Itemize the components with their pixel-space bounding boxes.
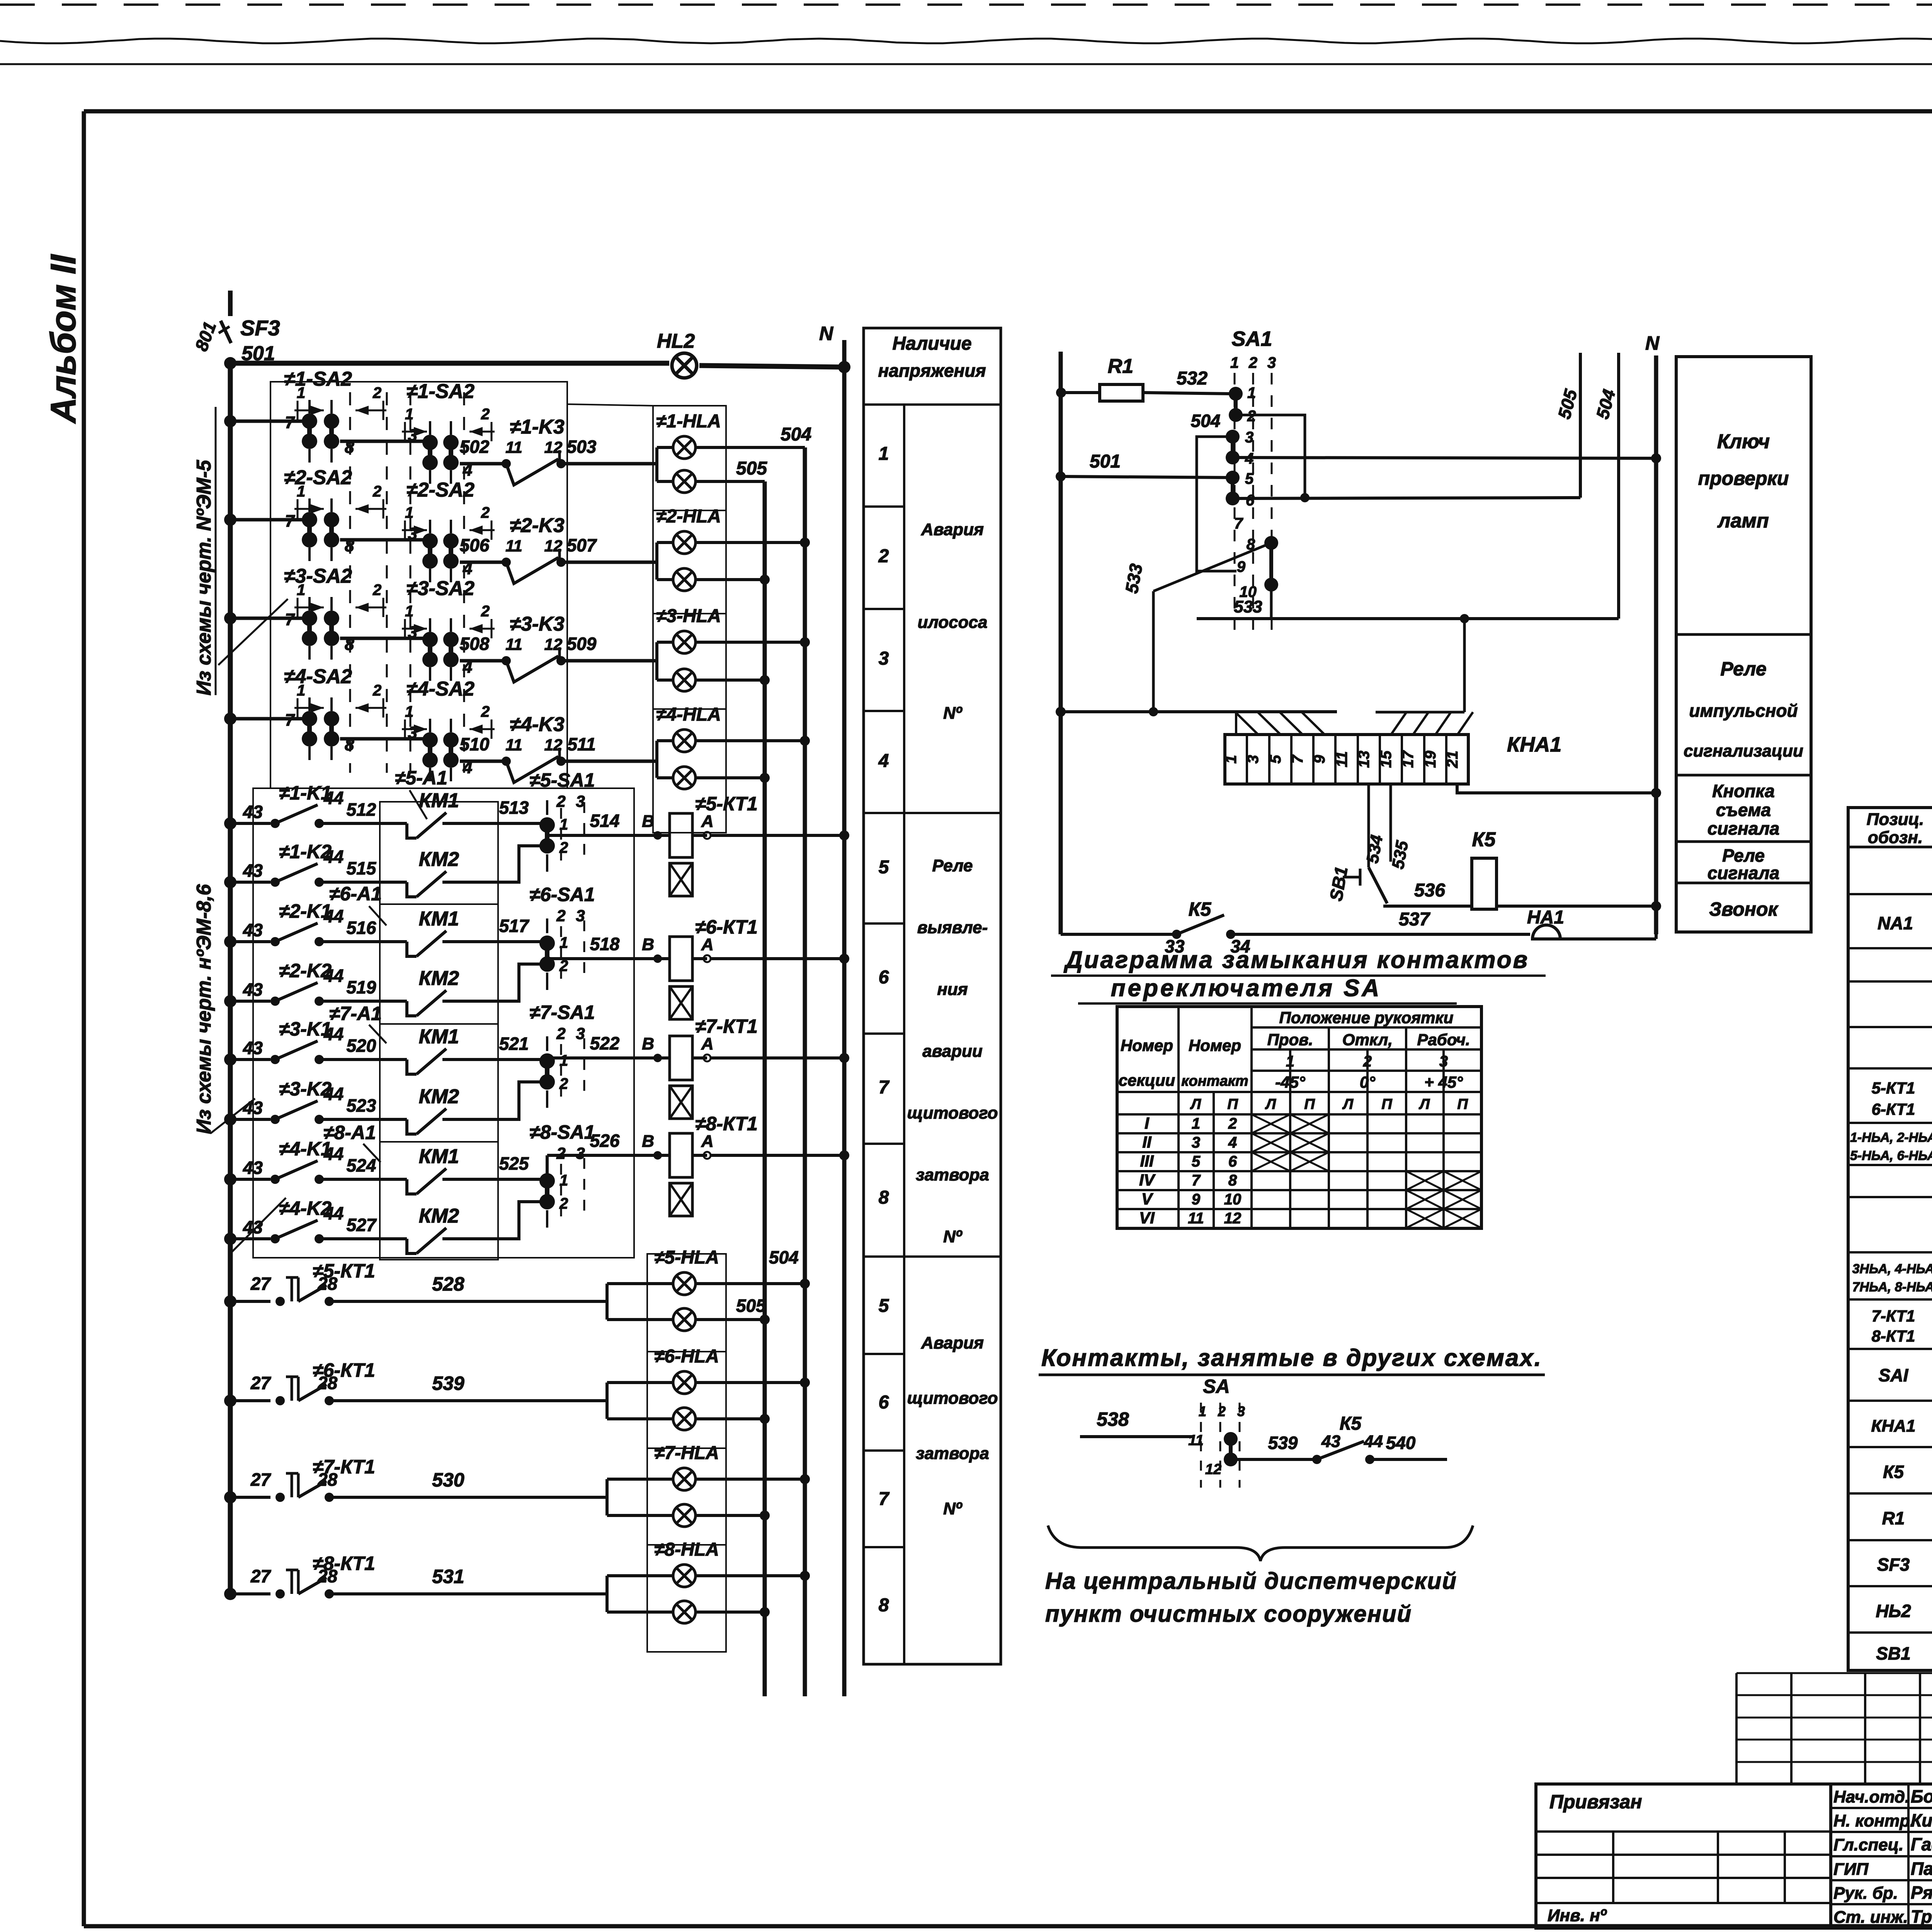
svg-text:Н. контр.: Н. контр.: [1833, 1811, 1915, 1830]
wire link 8-3 row 2: [340, 538, 425, 542]
wire lamp to 505 bus row 8: [696, 1611, 765, 1614]
svg-text:28: 28: [317, 1469, 338, 1490]
svg-text:509: 509: [567, 634, 597, 654]
svg-text:9: 9: [1192, 1191, 1201, 1208]
wire 526: [547, 1154, 657, 1157]
svg-text:7: 7: [285, 711, 296, 730]
wire tap row 6 from 501 bus: [230, 1399, 270, 1402]
svg-text:1: 1: [297, 384, 305, 401]
annunciator table frame: [1676, 357, 1811, 932]
svg-text:510: 510: [460, 734, 490, 754]
svg-text:43: 43: [243, 980, 263, 1000]
svg-text:≠3-HLA: ≠3-HLA: [656, 606, 721, 626]
svg-text:3: 3: [408, 723, 417, 742]
svg-text:III: III: [1140, 1152, 1154, 1170]
svg-text:512: 512: [347, 799, 376, 820]
lamp fork wires row 8: [605, 1576, 609, 1612]
svg-text:539: 539: [1268, 1433, 1298, 1453]
svg-text:44: 44: [323, 847, 344, 867]
riser KM2 output to selector row pair 2: [498, 964, 540, 1001]
wire tap row &#8800;3-K1 from 501 bus: [230, 1058, 270, 1061]
svg-text:2: 2: [556, 1024, 565, 1043]
svg-text:ламп: ламп: [1717, 510, 1769, 532]
svg-text:≠4-SA2: ≠4-SA2: [284, 665, 352, 688]
wire 537 rung: [1061, 933, 1177, 936]
svg-text:504: 504: [769, 1247, 799, 1267]
svg-text:3: 3: [1439, 1053, 1448, 1070]
svg-text:503: 503: [567, 437, 597, 457]
wire 518: [547, 957, 657, 960]
svg-text:контакт: контакт: [1181, 1073, 1248, 1089]
lamp fork wires row 4: [655, 739, 658, 742]
svg-text:43: 43: [243, 802, 263, 822]
wire 527: [319, 1237, 380, 1240]
wire tap row 4 from 501 bus: [230, 717, 305, 721]
wire tap row &#8800;4-K2 from 501 bus: [230, 1237, 270, 1240]
svg-text:4: 4: [1228, 1134, 1237, 1151]
svg-text:≠3-K3: ≠3-K3: [510, 613, 564, 635]
SA1 contact pair 1-2: [1229, 387, 1243, 401]
svg-text:Привязан: Привязан: [1549, 1791, 1642, 1813]
svg-text:≠1-K3: ≠1-K3: [510, 416, 564, 438]
svg-text:517: 517: [499, 916, 530, 936]
svg-text:1: 1: [297, 483, 305, 500]
presence table block 1 rows: [864, 505, 904, 508]
svg-text:Болотов: Болотов: [1911, 1786, 1932, 1806]
svg-text:ГИП: ГИП: [1833, 1860, 1869, 1879]
page top torn edge dashes: [0, 3, 1932, 6]
presence table block 3 rows: [864, 1353, 904, 1355]
svg-text:V: V: [1141, 1190, 1153, 1208]
svg-text:524: 524: [347, 1155, 376, 1175]
title block names table: [1831, 1784, 1932, 1928]
wire lamp to 504 bus row 4: [696, 739, 805, 742]
wire 525: [498, 1178, 542, 1181]
svg-text:501: 501: [1090, 451, 1121, 472]
svg-text:7: 7: [1234, 515, 1243, 532]
svg-text:Nº: Nº: [943, 1227, 963, 1246]
svg-text:27: 27: [250, 1373, 272, 1393]
thin outline box section 1: [270, 382, 653, 788]
wire K5 coil to N: [1497, 905, 1656, 908]
svg-text:≠8-КТ1: ≠8-КТ1: [695, 1113, 758, 1134]
svg-text:2: 2: [481, 703, 490, 720]
svg-text:≠2-SA2: ≠2-SA2: [406, 479, 474, 501]
svg-text:2: 2: [1248, 354, 1257, 371]
svg-text:≠4-SA2: ≠4-SA2: [406, 678, 474, 700]
svg-text:≠1-SA2: ≠1-SA2: [284, 368, 352, 390]
wire 539 and contact K5: [1231, 1458, 1314, 1461]
wire 540: [1370, 1458, 1447, 1461]
svg-text:Авария: Авария: [921, 520, 984, 539]
lamp fork wires row 3: [655, 641, 658, 644]
wire tap row &#8800;2-K1 from 501 bus: [230, 940, 270, 943]
svg-text:12: 12: [544, 537, 563, 555]
svg-text:505: 505: [736, 1296, 766, 1316]
svg-text:7: 7: [879, 1489, 890, 1509]
wire to KHA1 fan left: [1061, 710, 1337, 713]
curly brace to dispatch point: [1048, 1526, 1473, 1561]
panel lamp #7-HLA bottom: [673, 1504, 696, 1527]
svg-text:К5: К5: [1189, 898, 1212, 920]
svg-text:44: 44: [323, 788, 344, 808]
wire tap row 7 from 501 bus: [230, 1496, 270, 1499]
svg-text:2: 2: [372, 582, 381, 599]
svg-text:≠2-SA2: ≠2-SA2: [284, 466, 352, 489]
wire tap row &#8800;2-K2 from 501 bus: [230, 1000, 270, 1003]
svg-text:43: 43: [243, 920, 263, 940]
wire lamp to 505 bus row 4: [696, 776, 765, 779]
wire 523: [319, 1118, 380, 1121]
relay &#8800;8-&#1050;&#1058;1 indicator box: [670, 1183, 692, 1216]
svg-text:≠7-А1: ≠7-А1: [329, 1003, 382, 1024]
wire tap row &#8800;4-K1 from 501 bus: [230, 1178, 270, 1181]
svg-text:аварии: аварии: [922, 1042, 983, 1061]
svg-text:На центральный диспетчерский: На центральный диспетчерский: [1045, 1568, 1457, 1594]
KM contact column box: [380, 802, 498, 1260]
svg-text:Кичигин: Кичигин: [1911, 1810, 1932, 1830]
svg-text:NА1: NА1: [1878, 913, 1913, 933]
svg-text:7: 7: [1289, 754, 1306, 764]
svg-text:11: 11: [1188, 1432, 1203, 1449]
svg-text:44: 44: [1364, 1432, 1383, 1451]
wire 520: [319, 1058, 380, 1061]
svg-text:1: 1: [1223, 755, 1240, 764]
lamp fork wires row 1: [655, 446, 658, 449]
svg-text:6: 6: [1246, 492, 1255, 509]
svg-text:43: 43: [243, 1098, 263, 1118]
wire 509 row 3: [561, 659, 657, 663]
svg-text:П: П: [1381, 1096, 1392, 1112]
svg-text:сигнала: сигнала: [1708, 818, 1779, 838]
svg-text:3: 3: [408, 524, 417, 543]
wire lamp to 505 bus row 2: [696, 578, 765, 581]
wire relay 522 to N bus: [711, 1056, 844, 1060]
svg-text:44: 44: [323, 1024, 344, 1044]
svg-text:4: 4: [878, 751, 889, 771]
wire 511 row 4: [561, 760, 657, 763]
svg-text:КМ2: КМ2: [419, 967, 459, 990]
leader line EM-5: [215, 407, 217, 695]
svg-text:≠3-SA2: ≠3-SA2: [284, 565, 352, 587]
svg-text:Авария: Авария: [921, 1333, 984, 1352]
lamp fork wires row 7: [605, 1479, 609, 1515]
svg-text:КНА1: КНА1: [1507, 733, 1561, 756]
svg-text:B: B: [642, 935, 654, 954]
dashed guides SA2 block: [349, 392, 351, 773]
svg-text:21: 21: [1444, 751, 1461, 769]
relay &#8800;6-&#1050;&#1058;1 indicator box: [670, 986, 692, 1019]
svg-text:2: 2: [878, 546, 889, 566]
svg-text:HL2: HL2: [657, 330, 695, 352]
svg-text:Рабоч.: Рабоч.: [1417, 1031, 1470, 1049]
component table header: [1848, 846, 1932, 849]
SA1 contact pair 5-6: [1226, 471, 1240, 485]
svg-text:3: 3: [1237, 1403, 1245, 1419]
wire SA1 pin6 to 505 stub: [1233, 498, 1580, 498]
svg-text:B: B: [642, 1132, 654, 1151]
svg-text:11: 11: [505, 736, 522, 754]
svg-text:≠5-HLA: ≠5-HLA: [654, 1247, 719, 1268]
lamp cabinet box section 3: [647, 1254, 726, 1652]
bracket pin2 to pin6 wire: [1236, 415, 1305, 498]
wire 801 stub: [228, 291, 233, 316]
fan wires into KHA1 right group: [1376, 711, 1464, 714]
panel lamp #1-HLA bottom: [673, 470, 696, 493]
bus left vertical 501: [228, 363, 233, 1598]
svg-text:525: 525: [499, 1153, 529, 1173]
riser KM2 output to selector row pair 4: [498, 1202, 540, 1239]
panel lamp #5-HLA bottom: [673, 1308, 696, 1331]
svg-text:8: 8: [1228, 1172, 1237, 1189]
svg-text:затвора: затвора: [916, 1165, 989, 1184]
riser KM2 output to selector row pair 1: [498, 846, 540, 882]
svg-text:2: 2: [556, 792, 565, 810]
presence table block 2 rows: [864, 922, 904, 925]
wire HL2 to N: [699, 366, 844, 367]
svg-text:1: 1: [405, 406, 413, 423]
svg-text:КНА1: КНА1: [1871, 1417, 1915, 1435]
wire 539: [329, 1399, 607, 1402]
svg-text:2: 2: [1363, 1053, 1372, 1070]
svg-text:528: 528: [432, 1273, 464, 1295]
svg-text:2: 2: [372, 483, 381, 500]
svg-text:SАI: SАI: [1879, 1365, 1909, 1385]
svg-text:17: 17: [1400, 750, 1417, 768]
svg-text:≠5-КТ1: ≠5-КТ1: [695, 793, 758, 815]
svg-text:7: 7: [285, 413, 296, 432]
bus N middle vertical: [1654, 355, 1658, 934]
svg-text:515: 515: [347, 858, 377, 878]
svg-text:28: 28: [317, 1274, 338, 1294]
svg-text:5: 5: [879, 1296, 889, 1316]
leader diagonal lower: [232, 1198, 286, 1252]
lamp fork wires row 5: [605, 1284, 609, 1320]
svg-text:504: 504: [1191, 411, 1221, 431]
svg-text:Реле: Реле: [1720, 658, 1766, 680]
svg-text:SF3: SF3: [1877, 1554, 1910, 1575]
svg-text:12: 12: [544, 736, 563, 754]
wire 503 row 1: [561, 462, 657, 466]
svg-text:импульсной: импульсной: [1689, 701, 1798, 721]
wire tap row 2 from 501 bus: [230, 518, 305, 522]
lamp cabinet dividers section 1: [653, 510, 726, 511]
wire 517: [498, 940, 542, 943]
svg-text:1: 1: [297, 682, 305, 699]
svg-text:SA: SA: [1203, 1376, 1230, 1397]
svg-text:532: 532: [1177, 368, 1207, 389]
svg-text:3: 3: [1245, 429, 1253, 446]
svg-text:522: 522: [590, 1033, 620, 1053]
svg-text:I: I: [1145, 1114, 1150, 1132]
svg-text:7-КТ1: 7-КТ1: [1872, 1307, 1915, 1325]
svg-text:28: 28: [317, 1566, 338, 1586]
svg-text:≠5-А1: ≠5-А1: [395, 767, 447, 789]
svg-text:1: 1: [405, 603, 413, 620]
svg-text:Nº: Nº: [943, 704, 963, 723]
svg-text:43: 43: [1321, 1432, 1340, 1451]
svg-text:≠8-HLA: ≠8-HLA: [654, 1539, 719, 1560]
svg-text:11: 11: [505, 438, 522, 456]
SA1 contact pair 8-10: [1264, 536, 1278, 550]
wire KHA1 pin21 to N: [1457, 784, 1656, 793]
svg-text:1: 1: [1286, 1053, 1294, 1070]
svg-text:Наличие: Наличие: [892, 333, 971, 354]
svg-text:Номер: Номер: [1189, 1036, 1241, 1054]
wire 502 row 1: [460, 462, 502, 466]
svg-text:Контакты, занятые в других схе: Контакты, занятые в других схемах.: [1041, 1345, 1542, 1371]
diagram table frame: [1117, 1007, 1481, 1228]
svg-text:1: 1: [1199, 1403, 1206, 1419]
svg-text:527: 527: [347, 1215, 377, 1235]
svg-text:537: 537: [1399, 909, 1430, 930]
svg-text:530: 530: [432, 1469, 464, 1491]
breaker SF3: [221, 321, 231, 343]
svg-text:щитового: щитового: [907, 1389, 998, 1408]
svg-text:VI: VI: [1139, 1209, 1155, 1227]
svg-text:15: 15: [1378, 750, 1395, 768]
svg-text:≠6-SA1: ≠6-SA1: [529, 884, 595, 905]
svg-text:6: 6: [1228, 1153, 1237, 1170]
riser from pin10 wire to right fan: [1463, 619, 1466, 712]
svg-text:Nº: Nº: [943, 1499, 963, 1518]
page top rule line: [0, 63, 1932, 65]
wire lamp to 505 bus row 3: [696, 679, 765, 682]
svg-text:3: 3: [1267, 354, 1276, 371]
svg-text:секции: секции: [1119, 1071, 1175, 1089]
svg-text:илососа: илососа: [918, 613, 988, 632]
svg-text:N: N: [819, 323, 833, 344]
svg-text:3: 3: [408, 426, 417, 445]
wire 507 row 2: [561, 561, 657, 564]
wire lamp to 505 bus row 7: [696, 1514, 765, 1517]
svg-text:≠2-HLA: ≠2-HLA: [656, 506, 721, 527]
wire relay 526 to N bus: [711, 1154, 844, 1157]
svg-text:сигнала: сигнала: [1708, 863, 1779, 883]
svg-text:6: 6: [879, 1392, 889, 1413]
svg-text:44: 44: [323, 1203, 344, 1223]
KM box pair dividers: [380, 903, 498, 905]
svg-text:3: 3: [408, 623, 417, 642]
svg-text:5-НЬА, 6-НЬА: 5-НЬА, 6-НЬА: [1850, 1148, 1932, 1163]
wire tap row 5 from 501 bus: [230, 1300, 270, 1303]
svg-text:502: 502: [460, 437, 490, 457]
svg-text:520: 520: [347, 1036, 376, 1056]
wire tap row &#8800;1-K1 from 501 bus: [230, 822, 270, 825]
thin outline box section 2: [253, 788, 634, 1258]
svg-text:Третьякова: Третьякова: [1911, 1906, 1932, 1927]
svg-text:≠4-K3: ≠4-K3: [510, 713, 564, 736]
component row separators: [1848, 893, 1932, 895]
lamp fork wires row 6: [605, 1383, 609, 1419]
svg-text:8-КТ1: 8-КТ1: [1872, 1327, 1915, 1345]
svg-text:8: 8: [879, 1187, 889, 1208]
bus 501 feed vertical middle: [1059, 352, 1063, 934]
svg-text:B: B: [642, 812, 654, 831]
wire 515: [319, 881, 380, 884]
svg-text:2: 2: [481, 406, 490, 423]
svg-text:2: 2: [372, 384, 381, 401]
svg-text:11: 11: [1333, 751, 1350, 767]
svg-text:2: 2: [556, 1144, 565, 1162]
svg-text:7: 7: [879, 1077, 890, 1098]
svg-text:7: 7: [285, 512, 296, 531]
svg-text:1: 1: [879, 444, 889, 464]
svg-text:2: 2: [556, 906, 565, 925]
svg-text:Инв. нº: Инв. нº: [1548, 1906, 1607, 1925]
svg-text:2: 2: [1228, 1115, 1237, 1132]
svg-text:12: 12: [1224, 1210, 1242, 1227]
diagram table X marks: [1252, 1114, 1290, 1133]
svg-text:43: 43: [243, 1217, 263, 1237]
svg-text:≠8-А1: ≠8-А1: [323, 1122, 376, 1143]
svg-text:3: 3: [1192, 1134, 1200, 1151]
wire 533 zigzag from SA1 pin8: [1153, 543, 1271, 591]
svg-text:A: A: [701, 812, 714, 831]
svg-text:3: 3: [879, 648, 889, 669]
svg-text:К5: К5: [1472, 828, 1496, 851]
svg-text:1-НЬА, 2-НЬА: 1-НЬА, 2-НЬА: [1850, 1130, 1932, 1145]
svg-text:≠6-А1: ≠6-А1: [329, 883, 382, 905]
wire 506 row 2: [460, 561, 502, 564]
svg-text:щитового: щитового: [907, 1104, 998, 1122]
svg-text:П: П: [1457, 1096, 1468, 1112]
svg-text:9: 9: [1311, 755, 1328, 764]
wire tap row &#8800;1-K2 from 501 bus: [230, 881, 270, 884]
svg-text:Откл,: Откл,: [1342, 1031, 1393, 1049]
svg-text:≠1-SA2: ≠1-SA2: [406, 380, 474, 403]
fan wires into KHA1 left group: [1235, 712, 1237, 735]
svg-text:≠6-КТ1: ≠6-КТ1: [695, 916, 758, 938]
svg-text:≠7-SA1: ≠7-SA1: [529, 1002, 595, 1023]
svg-text:КМ2: КМ2: [419, 1205, 459, 1227]
junction SF3-bus: [224, 357, 236, 369]
svg-text:2: 2: [481, 504, 490, 521]
leader diagonal EM-5: [218, 599, 288, 665]
table presence of voltage: [864, 328, 1001, 1664]
svg-text:5: 5: [879, 857, 889, 878]
wire lamp to 504 bus row 8: [696, 1574, 805, 1577]
svg-text:507: 507: [567, 535, 597, 555]
title block left table privyazan: [1536, 1784, 1831, 1928]
svg-text:П: П: [1227, 1096, 1238, 1112]
wire lamp to 504 bus row 7: [696, 1478, 805, 1481]
svg-text:5-КТ1: 5-КТ1: [1872, 1079, 1915, 1097]
panel lamp #6-HLA bottom: [673, 1408, 696, 1430]
wire tap row 8 from 501 bus: [230, 1592, 270, 1595]
svg-text:B: B: [642, 1034, 654, 1053]
svg-text:сигнализации: сигнализации: [1684, 742, 1803, 760]
wire link 8-3 row 4: [340, 737, 425, 741]
wire bell to N: [1560, 937, 1656, 940]
wire 530: [329, 1496, 607, 1499]
wire lamp to 504 bus row 2: [696, 541, 805, 544]
wire lamp to 504 bus row 5: [696, 1282, 805, 1285]
wire 521: [498, 1058, 542, 1061]
svg-text:1: 1: [1247, 384, 1256, 401]
svg-text:Диаграмма замыкания контактов: Диаграмма замыкания контактов: [1063, 947, 1529, 973]
bus 505 vertical: [763, 481, 767, 1696]
svg-text:27: 27: [250, 1274, 272, 1294]
leader diagonal EM-8,6: [211, 1099, 255, 1133]
svg-text:540: 540: [1386, 1433, 1416, 1453]
svg-text:КМ1: КМ1: [419, 1026, 459, 1048]
lamp cabinet box section 1: [653, 406, 726, 833]
svg-text:514: 514: [590, 811, 620, 831]
wire tap row &#8800;3-K2 from 501 bus: [230, 1118, 270, 1121]
wire link 8-3 row 1: [340, 440, 425, 443]
svg-text:Из схемы черт. нºЭМ-8,6: Из схемы черт. нºЭМ-8,6: [193, 884, 215, 1134]
